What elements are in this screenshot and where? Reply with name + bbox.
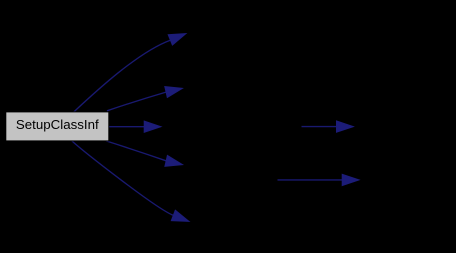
arrowhead of fourth edge bbox=[165, 155, 183, 166]
arrowhead of middle edge bbox=[144, 121, 161, 132]
arrowhead of bottom edge bbox=[171, 210, 189, 221]
node SetupClassInf (current node box) bbox=[6, 112, 109, 141]
arrowhead of right middle edge bbox=[337, 121, 354, 132]
wire: edge from SetupClassInf to fourth node bbox=[106, 141, 166, 161]
wire: edge from SetupClassInf to bottom node (curved) bbox=[72, 141, 174, 216]
wire: straight middle edge from SetupClassInf bbox=[108, 126, 145, 128]
arrowhead of right lower edge bbox=[342, 174, 359, 185]
arrowhead of top edge bbox=[168, 34, 186, 46]
wire: edge from SetupClassInf to top node (curved) bbox=[74, 40, 171, 112]
wire: right middle horizontal edge bbox=[302, 126, 338, 128]
wire: edge from SetupClassInf to second node bbox=[107, 92, 166, 111]
arrowhead of second edge bbox=[165, 87, 183, 98]
wire: right lower horizontal edge bbox=[278, 179, 344, 181]
svg-text:SetupClassInf: SetupClassInf bbox=[16, 117, 99, 132]
